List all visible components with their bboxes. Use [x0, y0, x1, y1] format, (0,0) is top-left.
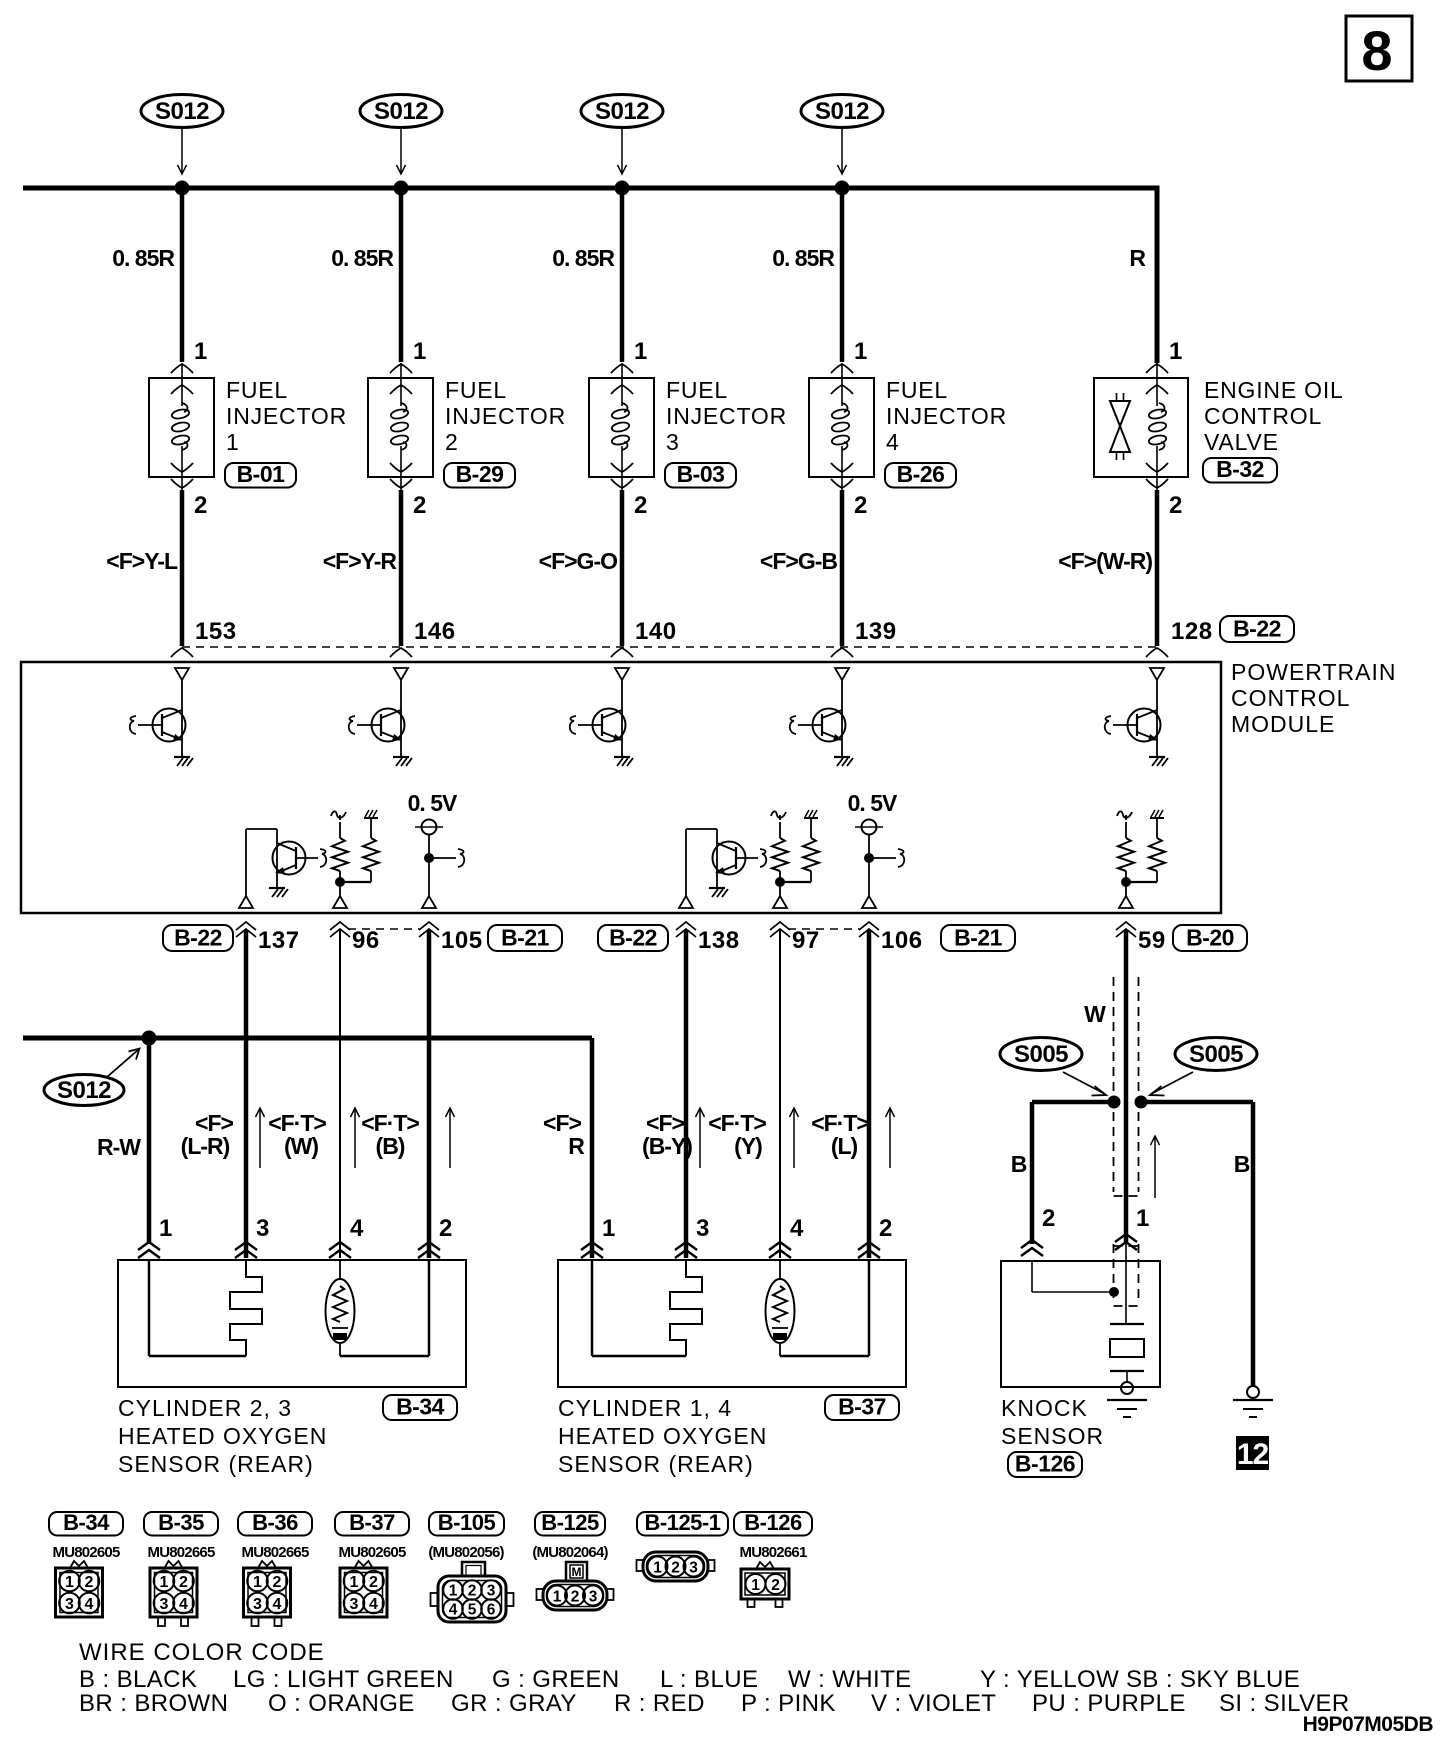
svg-text:140: 140: [635, 618, 677, 645]
svg-text:1: 1: [634, 338, 647, 365]
svg-text:B-03: B-03: [677, 461, 725, 487]
svg-text:4: 4: [85, 1596, 94, 1613]
svg-text:1: 1: [854, 338, 867, 365]
svg-text:CYLINDER 2, 3: CYLINDER 2, 3: [118, 1395, 292, 1421]
svg-text:146: 146: [414, 618, 456, 645]
svg-text:MU802605: MU802605: [339, 1544, 406, 1561]
svg-text:B : BLACK: B : BLACK: [79, 1666, 197, 1693]
svg-text:CONTROL: CONTROL: [1231, 685, 1350, 711]
svg-text:S012: S012: [57, 1077, 111, 1104]
svg-text:HEATED OXYGEN: HEATED OXYGEN: [118, 1423, 327, 1449]
svg-text:4: 4: [886, 429, 900, 455]
svg-text:0. 85R: 0. 85R: [772, 245, 835, 271]
svg-text:B-126: B-126: [1015, 1451, 1075, 1477]
svg-text:3: 3: [589, 1588, 598, 1605]
svg-text:B-21: B-21: [954, 925, 1003, 951]
svg-text:B-22: B-22: [609, 925, 657, 951]
svg-text:CONTROL: CONTROL: [1204, 403, 1322, 429]
svg-text:R: R: [1129, 245, 1146, 271]
svg-text:MU802661: MU802661: [740, 1544, 807, 1561]
svg-text:1: 1: [602, 1215, 615, 1242]
svg-text:<F>(W-R): <F>(W-R): [1058, 548, 1152, 574]
svg-text:POWERTRAIN: POWERTRAIN: [1231, 659, 1396, 685]
svg-text:1: 1: [553, 1588, 562, 1605]
svg-text:<F>Y-R: <F>Y-R: [323, 548, 398, 574]
svg-text:B-125: B-125: [541, 1510, 599, 1535]
svg-text:(Y): (Y): [734, 1133, 762, 1159]
svg-text:B-36: B-36: [252, 1510, 298, 1535]
svg-text:(MU802064): (MU802064): [532, 1544, 608, 1561]
svg-text:(L-R): (L-R): [181, 1133, 230, 1159]
svg-text:P : PINK: P : PINK: [741, 1690, 836, 1717]
svg-text:FUEL: FUEL: [445, 377, 507, 403]
svg-text:1: 1: [653, 1559, 662, 1576]
svg-text:GR : GRAY: GR : GRAY: [451, 1690, 577, 1717]
svg-text:H9P07M05DB: H9P07M05DB: [1303, 1713, 1434, 1736]
svg-text:R: R: [568, 1133, 585, 1159]
svg-text:M: M: [572, 1565, 582, 1579]
svg-text:2: 2: [571, 1588, 580, 1605]
svg-text:SENSOR: SENSOR: [1001, 1423, 1104, 1449]
svg-text:153: 153: [195, 618, 237, 645]
svg-text:(B): (B): [376, 1133, 405, 1159]
svg-text:PU : PURPLE: PU : PURPLE: [1032, 1690, 1186, 1717]
svg-text:R : RED: R : RED: [614, 1690, 705, 1717]
svg-text:128: 128: [1171, 618, 1213, 645]
svg-text:INJECTOR: INJECTOR: [886, 403, 1007, 429]
svg-text:B-37: B-37: [838, 1394, 886, 1420]
svg-text:HEATED OXYGEN: HEATED OXYGEN: [558, 1423, 767, 1449]
svg-text:2: 2: [445, 429, 459, 455]
svg-text:FUEL: FUEL: [666, 377, 728, 403]
svg-text:B-34: B-34: [63, 1510, 110, 1535]
svg-text:3: 3: [696, 1215, 709, 1242]
svg-text:8: 8: [1361, 19, 1392, 82]
svg-text:0. 5V: 0. 5V: [848, 790, 898, 816]
svg-text:2: 2: [671, 1559, 680, 1576]
svg-text:3: 3: [350, 1596, 359, 1613]
svg-text:B: B: [1234, 1151, 1251, 1177]
svg-text:CYLINDER 1, 4: CYLINDER 1, 4: [558, 1395, 732, 1421]
svg-text:W : WHITE: W : WHITE: [788, 1666, 912, 1693]
svg-text:1: 1: [253, 1574, 262, 1591]
svg-text:B-126: B-126: [744, 1510, 802, 1535]
svg-text:KNOCK: KNOCK: [1001, 1395, 1088, 1421]
svg-text:B-29: B-29: [456, 461, 504, 487]
svg-text:6: 6: [487, 1602, 496, 1619]
svg-text:V : VIOLET: V : VIOLET: [871, 1690, 996, 1717]
svg-text:2: 2: [413, 492, 426, 519]
svg-text:B-32: B-32: [1216, 456, 1264, 482]
svg-text:G : GREEN: G : GREEN: [492, 1666, 620, 1693]
svg-text:(W): (W): [284, 1133, 318, 1159]
svg-text:2: 2: [439, 1215, 452, 1242]
svg-text:4: 4: [350, 1215, 364, 1242]
svg-text:FUEL: FUEL: [886, 377, 948, 403]
svg-text:1: 1: [1136, 1205, 1149, 1232]
svg-text:MU802605: MU802605: [53, 1544, 120, 1561]
svg-text:4: 4: [449, 1602, 458, 1619]
svg-text:1: 1: [1169, 338, 1182, 365]
svg-text:1: 1: [449, 1583, 458, 1600]
svg-text:SENSOR (REAR): SENSOR (REAR): [558, 1451, 754, 1477]
svg-text:B-26: B-26: [897, 461, 945, 487]
svg-text:B-01: B-01: [237, 461, 286, 487]
svg-text:B-21: B-21: [501, 925, 550, 951]
svg-text:B: B: [1011, 1151, 1028, 1177]
svg-text:3: 3: [256, 1215, 269, 1242]
svg-text:S005: S005: [1014, 1041, 1068, 1068]
svg-text:S012: S012: [374, 98, 428, 125]
svg-text:S012: S012: [815, 98, 869, 125]
svg-text:B-37: B-37: [349, 1510, 395, 1535]
svg-text:1: 1: [413, 338, 426, 365]
svg-text:S005: S005: [1189, 1041, 1243, 1068]
svg-text:2: 2: [634, 492, 647, 519]
svg-text:S012: S012: [155, 98, 209, 125]
svg-text:MODULE: MODULE: [1231, 711, 1335, 737]
svg-text:B-20: B-20: [1186, 925, 1234, 951]
svg-text:2: 2: [879, 1215, 892, 1242]
svg-text:MU802665: MU802665: [148, 1544, 215, 1561]
svg-text:B-125-1: B-125-1: [645, 1510, 721, 1535]
svg-text:96: 96: [352, 927, 380, 954]
svg-text:3: 3: [689, 1559, 698, 1576]
svg-text:B-22: B-22: [174, 925, 222, 951]
svg-text:FUEL: FUEL: [226, 377, 288, 403]
svg-text:W: W: [1084, 1001, 1106, 1027]
svg-text:1: 1: [350, 1574, 359, 1591]
svg-text:B-34: B-34: [396, 1394, 445, 1420]
svg-text:(L): (L): [831, 1133, 858, 1159]
svg-text:12: 12: [1237, 1438, 1269, 1471]
svg-text:4: 4: [273, 1596, 282, 1613]
svg-text:5: 5: [468, 1602, 477, 1619]
svg-text:2: 2: [1042, 1205, 1055, 1232]
svg-text:2: 2: [85, 1574, 94, 1591]
svg-text:0. 5V: 0. 5V: [408, 790, 458, 816]
svg-text:2: 2: [854, 492, 867, 519]
svg-text:4: 4: [790, 1215, 804, 1242]
svg-text:(MU802056): (MU802056): [428, 1544, 504, 1561]
svg-text:2: 2: [369, 1574, 378, 1591]
svg-text:O : ORANGE: O : ORANGE: [268, 1690, 415, 1717]
svg-text:1: 1: [194, 338, 207, 365]
svg-text:105: 105: [441, 927, 483, 954]
svg-text:0. 85R: 0. 85R: [552, 245, 615, 271]
svg-text:SENSOR (REAR): SENSOR (REAR): [118, 1451, 314, 1477]
svg-text:0. 85R: 0. 85R: [112, 245, 175, 271]
svg-text:4: 4: [179, 1596, 188, 1613]
svg-text:INJECTOR: INJECTOR: [226, 403, 347, 429]
svg-text:MU802665: MU802665: [242, 1544, 309, 1561]
svg-text:SB : SKY BLUE: SB : SKY BLUE: [1126, 1666, 1300, 1693]
svg-text:BR : BROWN: BR : BROWN: [79, 1690, 228, 1717]
svg-text:138: 138: [698, 927, 740, 954]
svg-text:2: 2: [179, 1574, 188, 1591]
svg-text:1: 1: [751, 1577, 760, 1594]
svg-text:0. 85R: 0. 85R: [331, 245, 394, 271]
svg-text:2: 2: [273, 1574, 282, 1591]
svg-text:2: 2: [1169, 492, 1182, 519]
svg-text:S012: S012: [595, 98, 649, 125]
svg-text:3: 3: [487, 1583, 496, 1600]
svg-text:B-105: B-105: [438, 1510, 496, 1535]
svg-text:59: 59: [1138, 927, 1166, 954]
svg-text:LG : LIGHT GREEN: LG : LIGHT GREEN: [233, 1666, 454, 1693]
svg-text:4: 4: [369, 1596, 378, 1613]
svg-text:3: 3: [666, 429, 680, 455]
svg-text:B-35: B-35: [158, 1510, 204, 1535]
svg-text:WIRE COLOR CODE: WIRE COLOR CODE: [79, 1639, 325, 1666]
svg-text:2: 2: [194, 492, 207, 519]
svg-text:2: 2: [468, 1583, 477, 1600]
svg-text:1: 1: [159, 1215, 172, 1242]
svg-text:<F>Y-L: <F>Y-L: [106, 548, 178, 574]
svg-text:<F>G-B: <F>G-B: [760, 548, 837, 574]
svg-text:L : BLUE: L : BLUE: [660, 1666, 758, 1693]
svg-text:2: 2: [771, 1577, 780, 1594]
svg-text:139: 139: [855, 618, 897, 645]
svg-text:ENGINE OIL: ENGINE OIL: [1204, 377, 1344, 403]
svg-text:97: 97: [792, 927, 820, 954]
svg-text:INJECTOR: INJECTOR: [445, 403, 566, 429]
svg-text:B-22: B-22: [1233, 616, 1281, 642]
svg-text:<F>G-O: <F>G-O: [539, 548, 617, 574]
svg-text:137: 137: [258, 927, 300, 954]
svg-text:VALVE: VALVE: [1204, 429, 1279, 455]
svg-text:3: 3: [160, 1596, 169, 1613]
svg-text:Y : YELLOW: Y : YELLOW: [980, 1666, 1119, 1693]
svg-text:3: 3: [65, 1596, 74, 1613]
svg-text:1: 1: [160, 1574, 169, 1591]
svg-text:1: 1: [226, 429, 240, 455]
svg-text:R-W: R-W: [97, 1134, 141, 1160]
svg-text:106: 106: [881, 927, 923, 954]
svg-text:(B-Y): (B-Y): [642, 1133, 692, 1159]
svg-text:INJECTOR: INJECTOR: [666, 403, 787, 429]
svg-text:1: 1: [65, 1574, 74, 1591]
svg-text:3: 3: [253, 1596, 262, 1613]
